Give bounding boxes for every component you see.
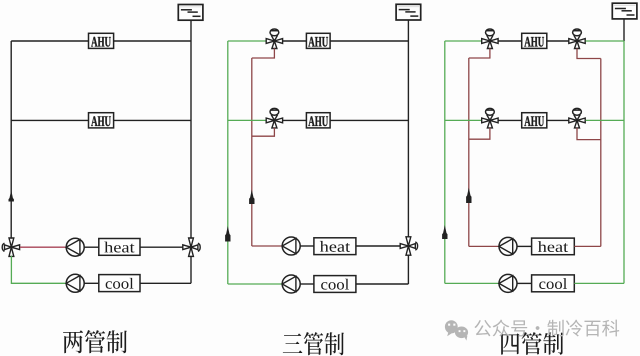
diagram 2 red hot supply pipe (vertical) [251, 58, 253, 246]
diagram 3 tank stem wire [623, 19, 625, 41]
diagram 3 motor valve MV4 [569, 29, 585, 48]
flow arrow on diagram 2 red pipe [249, 190, 254, 205]
diagram 1 cool box [99, 275, 140, 292]
diagram 1 cold supply wire (green) [11, 256, 66, 283]
diagram 1 three-way valve V1 (left) [2, 238, 19, 256]
diagram 3 red wire heat box to return [574, 245, 601, 247]
diagram 3 MV5 red branch wire [469, 128, 490, 139]
diagram 2 motor valve MV1 [266, 29, 282, 48]
label 两管制 [63, 330, 127, 353]
diagram 3 red hot supply pipe left (vertical) [468, 58, 470, 246]
diagram 3 wire MV5 to AHU box 2 [499, 119, 522, 121]
diagram 2 wire MV1 to AHU box 1 [283, 40, 306, 42]
diagram 3 green wire cool box to return [574, 282, 624, 284]
diagram 1 left supply pipe (vertical) [10, 41, 12, 239]
flow arrow on diagram 1 left pipe [9, 190, 14, 202]
diagram 1 wire cool box to return pipe [140, 282, 191, 284]
flow arrow on diagram 3 green pipe [442, 225, 447, 239]
flow arrow on diagram 2 green pipe [225, 226, 230, 242]
diagram 3 row 2 green wire right [586, 119, 624, 121]
label 四管制 [501, 332, 563, 355]
diagram 2 motor valve MV2 [266, 108, 282, 128]
diagram 2 heat pump P3 [282, 237, 300, 255]
diagram 2 cool pump P4 [282, 275, 300, 293]
diagram 3 MV4 red branch wire [577, 48, 601, 58]
diagram 2 wire pump P4 to cool box [301, 283, 314, 285]
diagram 3 wire pump P6 to cool box [517, 282, 531, 284]
diagram 2 MV2 red branch wire [252, 128, 275, 136]
diagram 1 heat box [99, 239, 140, 256]
diagram 1 wire pump P1 to heat box [85, 246, 99, 248]
diagram 2 red wire to heat pump [252, 245, 282, 247]
diagram 3 cool pump P6 [499, 274, 517, 292]
diagram 3 green chilled return pipe right (vertical) [623, 41, 625, 283]
diagram 2 MV1 red branch wire [252, 48, 275, 58]
diagram 1 AHU row 2 left wire [11, 119, 88, 121]
diagram 2 wire heat box to valve V3 [356, 245, 400, 247]
diagram 3 MV6 red branch wire [577, 128, 601, 140]
diagram 1 AHU row 1 right wire [114, 40, 191, 42]
diagram 2 green wire to cool pump [228, 283, 282, 285]
diagram 3 motor valve MV6 [569, 108, 585, 128]
diagram 1 AHU box 1 [89, 33, 114, 48]
diagram 3 AHU box 1 [522, 33, 547, 48]
diagram 3 red wire to heat pump [469, 245, 499, 247]
diagram 3 row 1 green wire right [586, 40, 624, 42]
diagram 3 heat box [532, 238, 575, 255]
diagram 1 AHU box 2 [89, 113, 114, 128]
diagram 1 right return pipe upper (vertical) [190, 20, 192, 238]
diagram 2 AHU box 2 [306, 113, 330, 128]
diagram 3 AHU box 2 [522, 113, 547, 128]
diagram 1 AHU row 2 right wire [114, 119, 191, 121]
diagram 1 cool pump P2 [66, 274, 84, 292]
diagram 1 tank T1 [178, 5, 203, 21]
label 三管制 [283, 332, 344, 355]
diagram 3 row 2 green wire left [445, 119, 482, 121]
diagram 3 wire MV3 to AHU box 1 [499, 40, 522, 42]
diagram 2 AHU row 2 right wire [330, 119, 408, 121]
watermark text 公众号·制冷百科 [474, 320, 619, 337]
diagram 2 cool box [314, 276, 356, 293]
diagram 2 green chilled supply pipe (vertical) [227, 41, 229, 284]
diagram 2 return pipe lower [407, 255, 409, 284]
diagram 3 wire AHU box 1 to MV4 [547, 40, 569, 42]
diagram 3 heat pump P5 [499, 237, 517, 255]
diagram 3 wire AHU box 2 to MV6 [547, 119, 569, 121]
diagram 3 green wire to cool pump [445, 282, 499, 284]
diagram 3 green chilled supply pipe left (vertical) [444, 41, 446, 283]
diagram 1 wire heat box to valve V2 [140, 246, 183, 248]
diagram 3 red hot return pipe right (vertical) [600, 59, 602, 247]
diagram 2 row 2 green wire [228, 119, 266, 121]
diagram 2 wire cool box to return pipe [356, 283, 409, 285]
watermark wechat icon [445, 320, 468, 340]
diagram 3 MV3 red branch wire [469, 48, 490, 58]
diagram 2 AHU box 1 [306, 33, 330, 48]
diagram 3 motor valve MV3 [482, 29, 498, 48]
diagram 1 wire pump P2 to cool box [85, 282, 99, 284]
diagram 3 tank T3 [612, 3, 637, 19]
diagram 2 AHU row 1 right wire [330, 40, 408, 42]
diagram 1 heat pump P1 [66, 238, 84, 256]
diagram 2 tank T2 [396, 4, 421, 20]
diagram 2 row 1 green wire [228, 40, 266, 42]
diagram 1 three-way valve V2 (right) [183, 238, 200, 256]
diagram 3 cool box [532, 275, 575, 292]
diagram 1 hot supply wire (red) [20, 246, 66, 248]
diagram 2 three-way valve V3 (right) [400, 237, 417, 255]
diagram 2 return pipe upper (vertical) [407, 20, 409, 238]
diagram 2 wire pump P3 to heat box [301, 245, 314, 247]
diagram 3 wire pump P5 to heat box [517, 245, 531, 247]
diagram 3 row 1 green wire left [445, 40, 482, 42]
diagram 1 right return pipe lower [190, 256, 192, 283]
diagram 1 AHU row 1 left wire [11, 40, 88, 42]
diagram 2 wire MV2 to AHU box 2 [283, 119, 306, 121]
flow arrow on diagram 3 red pipe [466, 188, 471, 204]
diagram 2 heat box [314, 238, 356, 255]
diagram 3 motor valve MV5 [482, 108, 498, 128]
